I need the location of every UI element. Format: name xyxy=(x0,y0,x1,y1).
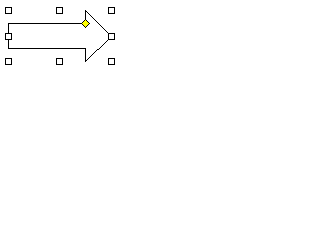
selection handle top-middle xyxy=(56,7,63,14)
selection handle middle-left xyxy=(5,33,12,40)
arrow shaft bottom edge (y=48, x=8..85) xyxy=(8,48,86,49)
arrow head front edge upper (x=85, y=10..23) xyxy=(85,10,86,24)
selection handle bottom-right xyxy=(108,58,115,65)
arrow shaft top edge (y=23, x=8..85) xyxy=(8,23,86,24)
selection handle middle-right xyxy=(108,33,115,40)
selection handle top-left xyxy=(5,7,12,14)
yellow diamond adjustment handle xyxy=(82,20,89,27)
arrow head bottom diagonal edge (85,61)-(111,36) xyxy=(85,36,112,62)
selection handle bottom-left xyxy=(5,58,12,65)
arrow head front edge lower (x=85, y=48..61) xyxy=(85,48,86,62)
selection handle top-right xyxy=(108,7,115,14)
arrow shaft left edge (x=8, y=23..48) xyxy=(8,23,9,49)
selection handle bottom-middle xyxy=(56,58,63,65)
white page background xyxy=(0,0,125,75)
arrow head top diagonal edge (85,10)-(111,36) xyxy=(85,10,112,37)
